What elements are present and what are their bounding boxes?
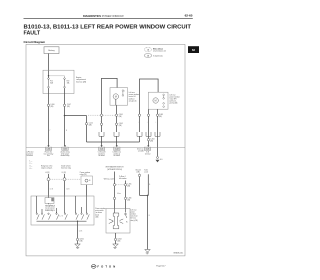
- svg-text:(2B): (2B): [127, 199, 130, 201]
- svg-text:window: window: [131, 214, 137, 216]
- svg-text:3 —: 3 —: [30, 166, 33, 168]
- svg-text:auto up/down ct: auto up/down ct: [45, 204, 55, 207]
- svg-text:B: B: [149, 215, 150, 217]
- svg-text:(2B): (2B): [89, 125, 92, 127]
- svg-text:+: +: [147, 122, 148, 124]
- svg-text:B1010-13, B1011-13 LEFT REAR P: B1010-13, B1011-13 LEFT REAR POWER WINDO…: [24, 24, 192, 30]
- svg-text:To be: To be: [144, 170, 148, 172]
- svg-text:C, Rear-left: C, Rear-left: [98, 150, 106, 153]
- svg-text:(2B): (2B): [119, 116, 122, 118]
- svg-text:C-107: C-107: [67, 104, 71, 106]
- svg-text:pinch) (2B): pinch) (2B): [170, 103, 178, 105]
- svg-text:Left rear: Left rear: [170, 93, 176, 96]
- svg-text:door) (2B): door) (2B): [131, 220, 139, 222]
- svg-text:Power dist.: Power dist.: [45, 150, 53, 153]
- svg-text:C-304: C-304: [150, 139, 154, 141]
- svg-text:all-time wiring: all-time wiring: [60, 150, 69, 153]
- svg-text:Circuit Diagram: Circuit Diagram: [24, 40, 46, 44]
- svg-text:FAULT: FAULT: [24, 30, 41, 36]
- svg-text:C-110: C-110: [89, 123, 93, 125]
- svg-text:2 —: 2 —: [30, 163, 33, 165]
- svg-text:Driver sw.: Driver sw.: [137, 147, 144, 150]
- svg-text:I-4 (2F): I-4 (2F): [45, 172, 50, 174]
- svg-text:power: power: [131, 211, 136, 213]
- svg-text:(2B): (2B): [159, 116, 162, 118]
- svg-text:1: 1: [124, 91, 125, 93]
- svg-text:power window: power window: [170, 96, 181, 98]
- svg-text:fuse box (2B): fuse box (2B): [76, 81, 86, 83]
- svg-text:Inside vehicle: Inside vehicle: [61, 165, 71, 167]
- svg-text:B: B: [149, 184, 150, 186]
- svg-text:Left rear: Left rear: [131, 208, 137, 211]
- svg-text:F15: F15: [50, 81, 53, 83]
- svg-text:4 —: 4 —: [30, 168, 33, 170]
- svg-text:C-306: C-306: [127, 197, 131, 199]
- svg-text:C-301: C-301: [119, 114, 123, 116]
- svg-text:Power window: Power window: [95, 208, 106, 210]
- svg-text:M: M: [155, 99, 157, 103]
- svg-text:DIAGNOSTICS POWER WINDOW: DIAGNOSTICS POWER WINDOW: [83, 14, 124, 18]
- svg-text:(2B): (2B): [127, 186, 130, 188]
- svg-text:Battery: Battery: [48, 49, 54, 52]
- svg-text:Wires without: Wires without: [153, 47, 163, 50]
- svg-text:1 2 3: 1 2 3: [60, 216, 63, 218]
- svg-text:C-303: C-303: [159, 114, 163, 116]
- svg-text:R: R: [66, 130, 68, 132]
- svg-text:M: M: [115, 95, 117, 99]
- svg-text:(2B): (2B): [67, 106, 70, 108]
- svg-text:30: 30: [89, 180, 91, 182]
- svg-text:fuse box relay: fuse box relay: [61, 167, 71, 169]
- svg-text:Relay box in the: Relay box in the: [41, 164, 53, 167]
- svg-text:relay (2F): relay (2F): [80, 174, 87, 176]
- svg-text:C-33: C-33: [146, 149, 149, 151]
- svg-text:C-302: C-302: [119, 123, 123, 125]
- svg-text:To Rear-1: To Rear-1: [119, 175, 126, 178]
- svg-text:Left rear: Left rear: [129, 91, 135, 94]
- svg-text:4-Pin door: 4-Pin door: [27, 150, 34, 153]
- svg-text:used: used: [144, 172, 148, 174]
- svg-text:power window: power window: [129, 94, 140, 96]
- svg-text:(on driver: (on driver: [95, 212, 102, 214]
- svg-text:WITH MASTER SWITCH: WITH MASTER SWITCH: [106, 166, 125, 169]
- svg-text:I-5 (2F): I-5 (2F): [62, 172, 67, 174]
- svg-text:C-305: C-305: [127, 184, 131, 186]
- svg-text:To backlit units: To backlit units: [153, 55, 163, 58]
- svg-text:I-204: I-204: [47, 149, 51, 151]
- svg-text:G-5: G-5: [160, 159, 163, 161]
- svg-text:0.5 B: 0.5 B: [79, 231, 82, 233]
- svg-text:C-31: C-31: [100, 149, 103, 151]
- svg-text:To B: To B: [146, 151, 149, 153]
- svg-text:(2B): (2B): [150, 141, 153, 143]
- svg-text:G-302: G-302: [117, 238, 121, 240]
- svg-text:I-205: I-205: [63, 149, 67, 151]
- svg-text:G-301: G-301: [80, 238, 84, 240]
- svg-text:With reg. switch: With reg. switch: [104, 178, 115, 181]
- svg-text:FOTON: FOTON: [97, 265, 117, 269]
- svg-text:door): door): [95, 214, 99, 216]
- svg-text:(2B): (2B): [119, 125, 122, 127]
- svg-text:(2B): (2B): [117, 240, 120, 242]
- svg-text:Left/Brn rear: Left/Brn rear: [113, 150, 122, 153]
- svg-text:+: +: [155, 122, 156, 124]
- svg-text:(2B): (2B): [95, 216, 98, 218]
- svg-text:1.0 B: 1.0 B: [66, 188, 69, 190]
- svg-text:(2B): (2B): [136, 172, 139, 174]
- svg-text:box: box: [47, 155, 50, 157]
- svg-text:1.0 B: 1.0 B: [50, 188, 53, 190]
- svg-text:Rs: Rs: [126, 222, 128, 224]
- svg-text:Page 8-17: Page 8-17: [156, 266, 166, 268]
- svg-text:Power window: Power window: [80, 172, 91, 174]
- svg-text:C-106: C-106: [50, 104, 54, 106]
- svg-text:Ground: Ground: [135, 170, 140, 172]
- svg-text:C-32: C-32: [115, 149, 118, 151]
- svg-text:+: +: [100, 121, 101, 123]
- svg-text:Motor: Motor: [117, 192, 121, 195]
- svg-text:(2B): (2B): [50, 106, 53, 108]
- svg-text:(2B): (2B): [80, 240, 83, 242]
- svg-text:62-65: 62-65: [185, 14, 193, 18]
- svg-text:Y: Y: [49, 130, 50, 132]
- svg-text:GHA4E-1011: GHA4E-1011: [173, 252, 183, 255]
- svg-text:1 —: 1 —: [30, 161, 33, 163]
- svg-text:F20: F20: [67, 81, 70, 83]
